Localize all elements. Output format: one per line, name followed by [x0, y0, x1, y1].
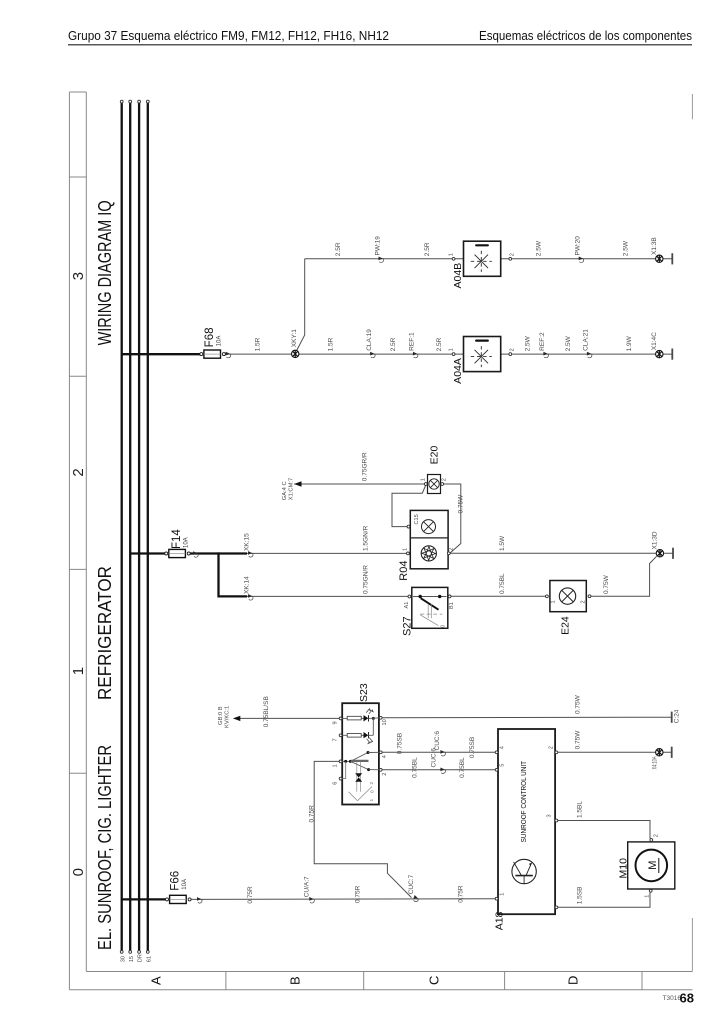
R04 pin 2 — [447, 552, 450, 555]
svg-text:0.75W: 0.75W — [575, 694, 582, 714]
E20 pin 2 — [441, 483, 444, 486]
svg-text:0.75BL: 0.75BL — [412, 757, 419, 778]
svg-text:2: 2 — [654, 834, 660, 837]
hook after F14 — [193, 551, 198, 557]
S23 LED upper — [364, 715, 369, 721]
svg-text:0: 0 — [441, 625, 447, 628]
svg-text:4: 4 — [499, 746, 505, 749]
M10 pin 1 — [649, 889, 652, 892]
A04A top bar — [475, 340, 489, 342]
svg-text:REF:2: REF:2 — [539, 332, 546, 351]
hook CUC:7 — [413, 895, 420, 902]
svg-text:1: 1 — [333, 764, 339, 767]
wire XK:14 row to S27 pin A1 — [247, 595, 409, 597]
svg-text:0.75W: 0.75W — [603, 574, 610, 594]
S23 wire resistor to LED upper — [361, 717, 363, 719]
svg-text:0.75R: 0.75R — [458, 885, 465, 903]
svg-text:9: 9 — [333, 721, 339, 724]
wire S23 pin 4 to A18 pin 4 — [382, 751, 497, 753]
hook after F68 — [226, 352, 231, 358]
svg-text:F14: F14 — [171, 529, 183, 549]
svg-text:GA:4 C: GA:4 C — [282, 481, 288, 500]
wire S23 pin 2 to A18 pin 5 — [382, 769, 497, 771]
S23 pin 1 — [339, 760, 342, 763]
svg-text:M: M — [647, 861, 659, 870]
A18 pin 3 — [555, 819, 558, 822]
A18 transistor symbol — [512, 859, 536, 883]
S23 common feed pin1 — [340, 760, 351, 762]
svg-text:D: D — [566, 976, 581, 985]
hook CLA:21 — [587, 352, 592, 358]
S23 throw to pin 2 — [350, 761, 368, 769]
svg-text:1: 1 — [403, 548, 409, 551]
terminal end A18 pin2 row — [671, 747, 673, 758]
splice X1:3D — [656, 550, 663, 557]
svg-text:15: 15 — [129, 956, 135, 962]
R04 pin C15 — [407, 525, 410, 528]
svg-text:A04A: A04A — [452, 358, 464, 384]
hook pair CUC:6 row pin4 — [440, 750, 445, 756]
svg-text:SUNROOF CONTROL UNIT: SUNROOF CONTROL UNIT — [521, 760, 528, 842]
S27 contact right — [438, 595, 441, 598]
svg-text:0.75SB: 0.75SB — [397, 733, 404, 754]
svg-text:1: 1 — [644, 895, 650, 898]
svg-text:CUC:6: CUC:6 — [434, 731, 441, 751]
svg-text:S27: S27 — [402, 616, 414, 636]
svg-text:0.75BL: 0.75BL — [499, 573, 506, 594]
splice X4:10A — [656, 749, 663, 756]
svg-text:2: 2 — [510, 348, 516, 351]
R04 pin 1 — [407, 552, 410, 555]
bottom strip bottom line — [69, 989, 692, 991]
component E24 lamp box — [550, 581, 586, 612]
S23 pin1 to pin6 link — [341, 761, 346, 778]
S27 contact left — [419, 595, 422, 598]
S27 pin A1 — [408, 595, 411, 598]
component A04B illumination panel box — [464, 241, 501, 276]
svg-text:10A: 10A — [182, 879, 188, 890]
A18 pin 6 — [555, 906, 558, 909]
svg-text:1.5R: 1.5R — [255, 337, 262, 351]
M10 motor circle — [636, 850, 668, 882]
wire GB:0 arrow to S23 pin 9 — [238, 717, 340, 719]
S23 suppressor diode pair — [355, 773, 362, 777]
svg-text:0.75W: 0.75W — [457, 494, 464, 514]
S23 pin 9 — [339, 717, 342, 720]
svg-text:X1:3D: X1:3D — [652, 531, 659, 549]
wire S23 pin 1 branch to CUC:7 — [314, 761, 411, 897]
S23 pin 7 — [339, 734, 342, 737]
svg-text:CUC:6: CUC:6 — [430, 748, 437, 768]
arrow to GA:4 — [294, 481, 301, 486]
svg-text:30: 30 — [120, 956, 126, 962]
svg-text:DR: DR — [138, 954, 144, 962]
svg-text:0.75W: 0.75W — [575, 730, 582, 750]
svg-text:XKY:1: XKY:1 — [291, 329, 298, 347]
svg-text:1: 1 — [70, 667, 87, 675]
wire E20 pin 2 to R04 pin 2 — [442, 484, 461, 553]
wire F14 feed from rail 15 — [130, 552, 165, 554]
svg-text:X1:CM:7: X1:CM:7 — [288, 478, 294, 501]
svg-text:A: A — [149, 976, 164, 985]
svg-text:A18: A18 — [493, 911, 505, 930]
svg-text:0.75GN/R: 0.75GN/R — [363, 565, 370, 594]
svg-text:2: 2 — [449, 548, 455, 551]
right border bottom segment — [691, 918, 693, 972]
svg-text:CU/A:7: CU/A:7 — [304, 876, 311, 897]
wire A18 pin 2 output to splice X4:10A — [557, 751, 672, 753]
power rail DR — [138, 103, 140, 950]
bottom strip divider C|D — [504, 972, 506, 990]
wire F14 output to XK:15 — [189, 552, 247, 554]
svg-text:1.5BL: 1.5BL — [577, 801, 584, 818]
svg-text:1: 1 — [369, 799, 375, 802]
S27 pin B1 — [448, 595, 451, 598]
svg-text:1: 1 — [421, 478, 427, 481]
svg-text:1.9W: 1.9W — [626, 335, 633, 351]
wire F68 feed from rail 30 — [122, 353, 200, 355]
hook PW:20 — [579, 257, 584, 263]
svg-text:2.5W: 2.5W — [623, 240, 630, 256]
component R04 relay box — [410, 510, 448, 568]
S27 lever — [421, 598, 439, 610]
hook REF:1 — [413, 352, 418, 358]
svg-text:GB:0 B: GB:0 B — [218, 706, 224, 725]
svg-text:B: B — [287, 976, 302, 985]
hook CLA:19 — [370, 352, 375, 358]
sidebar tick 0|1 — [69, 772, 86, 774]
svg-text:0.75SB: 0.75SB — [469, 737, 476, 758]
S23 wire pin9 to resistor — [342, 717, 347, 719]
svg-text:2.5W: 2.5W — [565, 335, 572, 351]
svg-text:XK:14: XK:14 — [244, 576, 251, 594]
svg-text:0.75BL/SB: 0.75BL/SB — [263, 696, 270, 727]
svg-text:X1:4C: X1:4C — [651, 332, 658, 350]
A04A pin 2 — [509, 353, 512, 356]
S23 resistor lower — [347, 734, 361, 738]
frame sidebar top cap — [69, 91, 86, 93]
svg-text:1: 1 — [448, 253, 454, 256]
S23 pin 10 — [379, 716, 382, 719]
splice X1:3B — [656, 255, 663, 262]
sidebar tick 3|blank — [69, 176, 86, 178]
power rail 61 — [147, 103, 149, 950]
fuse F66 10A — [166, 895, 192, 903]
svg-text:C: C — [427, 976, 442, 985]
E20 pin 1 — [424, 483, 427, 486]
wire S27 pin B1 to E24 pin 1 — [451, 595, 547, 597]
A04B star symbol — [471, 251, 492, 272]
svg-text:WIRING DIAGRAM IQ: WIRING DIAGRAM IQ — [95, 200, 115, 345]
component E20 lamp box — [428, 475, 441, 494]
bottom strip top line — [86, 971, 692, 973]
sidebar tick 2|3 — [69, 375, 86, 377]
component A18 sunroof control unit box — [498, 729, 555, 914]
svg-text:C15: C15 — [414, 514, 420, 524]
S23 LED lower — [364, 732, 369, 738]
S23 wire pin7 to resistor — [342, 734, 347, 736]
svg-text:2: 2 — [70, 468, 87, 476]
svg-text:B1: B1 — [449, 602, 455, 609]
hook pair CUC:6 row pin2 — [440, 768, 445, 774]
svg-text:X1:3B: X1:3B — [651, 237, 658, 255]
E24 lamp symbol — [559, 588, 575, 604]
svg-text:5: 5 — [499, 764, 505, 767]
power rail 15 — [129, 103, 131, 950]
svg-text:PW:19: PW:19 — [374, 236, 381, 256]
svg-text:0: 0 — [70, 868, 87, 876]
svg-text:Esquemas eléctricos de los com: Esquemas eléctricos de los componentes — [479, 29, 692, 43]
svg-text:2.5R: 2.5R — [436, 337, 443, 351]
S23 lever bar — [351, 760, 369, 762]
A18 pin 1 — [495, 897, 498, 900]
component A04A illumination panel box — [464, 337, 501, 372]
terminal end S23 pin10 row — [671, 712, 673, 723]
svg-text:F66: F66 — [170, 871, 182, 891]
svg-text:0.75R: 0.75R — [308, 805, 315, 823]
svg-text:CLA:19: CLA:19 — [366, 329, 373, 351]
svg-text:M10: M10 — [617, 858, 629, 879]
svg-text:2: 2 — [369, 782, 375, 785]
svg-text:61: 61 — [146, 956, 152, 962]
R04 compartment divider — [410, 537, 448, 539]
svg-text:2: 2 — [548, 746, 554, 749]
svg-text:1.5W: 1.5W — [499, 535, 506, 551]
power rail 30 — [121, 103, 123, 950]
fuse F68 10A — [200, 350, 226, 358]
svg-text:10A: 10A — [184, 537, 190, 548]
wire node XKY:1 riser to A04B row — [297, 259, 305, 351]
svg-text:CLA:21: CLA:21 — [583, 329, 590, 351]
svg-text:S23: S23 — [358, 683, 370, 702]
A04B pin 1 — [452, 257, 455, 260]
A04A star symbol — [471, 346, 492, 367]
S23 mechanism detent lines — [356, 761, 358, 791]
S27 mechanism pointer — [420, 615, 438, 626]
svg-text:2.5R: 2.5R — [335, 242, 342, 256]
S23 wire resistor to LED lower — [361, 734, 363, 736]
svg-text:7: 7 — [333, 738, 339, 741]
svg-text:4: 4 — [382, 755, 388, 758]
svg-text:1: 1 — [448, 348, 454, 351]
S23 mechanism pointer lines — [349, 792, 358, 801]
svg-text:PW:20: PW:20 — [575, 236, 582, 256]
svg-text:0.75R: 0.75R — [355, 885, 362, 903]
svg-text:C:24: C:24 — [674, 709, 681, 723]
svg-text:EL. SUNROOF, CIG. LIGHTER: EL. SUNROOF, CIG. LIGHTER — [95, 745, 115, 950]
svg-text:2: 2 — [510, 253, 516, 256]
S23 pin 6 — [339, 777, 342, 780]
wire M10 pin 1 to A18 pin 6 — [557, 892, 651, 907]
svg-text:2: 2 — [442, 478, 448, 481]
hook REF:2 — [543, 352, 548, 358]
A18 pin 2 — [555, 751, 558, 754]
sidebar tick 1|2 — [69, 568, 86, 570]
bottom strip divider D|end — [641, 972, 643, 990]
terminal end A04B row — [671, 253, 673, 264]
wire A18 pin 3 to M10 pin 2 — [557, 821, 651, 839]
S23 resistor upper — [347, 716, 361, 720]
terminal end R04 row — [672, 548, 674, 559]
svg-text:E24: E24 — [560, 616, 572, 635]
svg-text:REFRIGERATOR: REFRIGERATOR — [95, 566, 115, 700]
hook CU/A:7 — [309, 897, 314, 903]
svg-text:Grupo 37 Esquema eléctrico FM9: Grupo 37 Esquema eléctrico FM9, FM12, FH… — [68, 29, 389, 43]
wire E20 feed from GA:4 — [294, 483, 426, 485]
svg-text:1.5GN/R: 1.5GN/R — [363, 525, 370, 551]
svg-text:68: 68 — [680, 991, 694, 1006]
svg-text:REF:1: REF:1 — [409, 332, 416, 351]
svg-text:0.75R: 0.75R — [247, 886, 254, 904]
M10 pin 2 — [650, 839, 653, 842]
svg-text:A04B: A04B — [452, 263, 464, 289]
bottom strip divider B|C — [363, 972, 365, 990]
svg-text:2: 2 — [382, 773, 388, 776]
svg-text:0.75BL: 0.75BL — [459, 757, 466, 778]
svg-text:R04: R04 — [398, 561, 410, 581]
frame sidebar inner line — [85, 92, 87, 972]
S27 mechanism dashed rail — [420, 613, 442, 615]
arrow to GB:0 — [233, 716, 240, 721]
svg-text:2.5W: 2.5W — [535, 240, 542, 256]
S23 pin 4 — [379, 751, 382, 754]
hook XK:15 — [248, 551, 253, 557]
wire A04B row to terminal — [305, 258, 673, 260]
E24 pin 2 — [588, 595, 591, 598]
svg-text:X4:10A: X4:10A — [653, 757, 659, 770]
svg-text:A1: A1 — [404, 602, 410, 609]
svg-text:2: 2 — [581, 600, 587, 603]
S27 wire through contacts — [413, 596, 447, 598]
S23 LED lower arrows — [367, 739, 371, 743]
R04 indicator lamp — [422, 520, 436, 534]
splice XKY:1 — [292, 350, 299, 357]
wire R04 pin C15 branch to E20 pin 1 — [392, 485, 426, 527]
header underline — [68, 44, 692, 46]
A04B top bar — [475, 244, 489, 246]
wire F66 feed from rail 30 — [122, 898, 166, 900]
svg-text:6: 6 — [333, 782, 339, 785]
E20 lamp symbol — [429, 479, 439, 489]
frame left outer border — [68, 92, 70, 990]
wire R04 pin 2 output 1.5W to splice X1:3D — [450, 552, 673, 554]
S23 pin 2 — [379, 768, 382, 771]
wire E24 pin 2 to splice X1:3D — [590, 556, 656, 596]
wire XK:15 row to R04 pin 1 — [247, 552, 408, 554]
fuse F14 10A — [165, 549, 191, 557]
wire S23 pin 10 row to terminal C:24 — [382, 716, 672, 719]
S23 LED upper arrows — [366, 708, 370, 712]
A04B pin 2 — [509, 257, 512, 260]
S23 throw to pin 4 — [350, 753, 368, 762]
component M10 sunroof motor box — [628, 842, 675, 889]
hook PW:19 — [379, 257, 384, 263]
svg-text:KV/KC:1: KV/KC:1 — [225, 706, 231, 728]
svg-text:2.5W: 2.5W — [525, 335, 532, 351]
E24 pin 1 — [546, 595, 549, 598]
hook XK:14 — [248, 594, 253, 600]
wire F68 output row to A04A and terminal — [226, 353, 673, 355]
wire F66 output row to A18 pin 1 — [192, 898, 497, 901]
svg-text:0.75GR/R: 0.75GR/R — [362, 452, 369, 481]
svg-text:1.5R: 1.5R — [328, 337, 335, 351]
splice X1:4C — [656, 350, 663, 357]
A18 pin 4 — [495, 751, 498, 754]
S23 LED common junction — [372, 717, 375, 720]
component S27 switch box — [412, 587, 448, 628]
right border top segment — [691, 94, 693, 119]
hook after F66 — [197, 897, 202, 903]
terminal end A04A row — [671, 349, 673, 360]
svg-text:3: 3 — [70, 272, 87, 280]
A04A pin 1 — [452, 353, 455, 356]
svg-text:1: 1 — [551, 600, 557, 603]
R04 fan motor symbol — [421, 546, 436, 561]
svg-text:3: 3 — [546, 814, 552, 817]
A18 pin 5 — [495, 768, 498, 771]
component S23 switch box — [342, 703, 379, 804]
svg-text:E20: E20 — [428, 446, 440, 465]
wire branch junction to XK:14 — [219, 552, 248, 596]
M10 underline — [658, 858, 660, 873]
svg-text:2.5R: 2.5R — [390, 337, 397, 351]
bottom strip divider A|B — [225, 972, 227, 990]
svg-text:10: 10 — [382, 719, 388, 725]
svg-text:10A: 10A — [217, 336, 223, 347]
svg-text:1.5SB: 1.5SB — [577, 887, 584, 905]
svg-text:CUC:7: CUC:7 — [408, 874, 415, 894]
svg-text:1: 1 — [499, 893, 505, 896]
svg-text:2.5R: 2.5R — [424, 242, 431, 256]
svg-text:0: 0 — [370, 790, 376, 793]
svg-text:XK:15: XK:15 — [244, 533, 251, 551]
S27 mechanism detent lines — [427, 604, 429, 618]
svg-text:F68: F68 — [204, 327, 216, 347]
